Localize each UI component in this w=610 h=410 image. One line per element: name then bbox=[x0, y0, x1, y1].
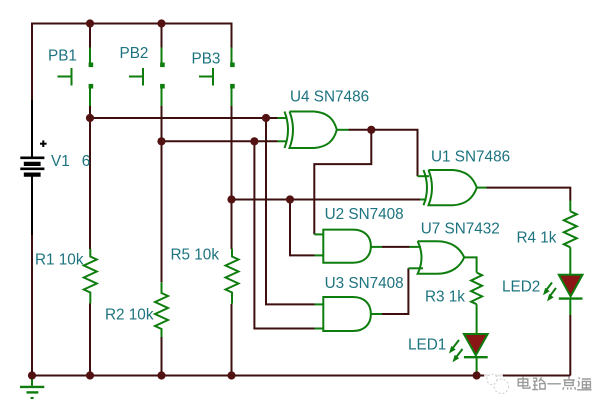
node A junction bbox=[86, 114, 94, 122]
svg-text:R3 1k: R3 1k bbox=[425, 289, 465, 306]
wire left branch battery top lead bbox=[31, 100, 33, 157]
wire node A branch to U3 input 1 bbox=[266, 118, 315, 304]
XOR gate U4 SN7486 bbox=[285, 112, 337, 149]
watermark text 电路一点通 (drawn as strokes) bbox=[520, 378, 593, 391]
wire U7 pin 2 stub bbox=[408, 267, 423, 269]
wire R3 to LED1 bbox=[476, 304, 478, 334]
wire left branch battery bottom lead bbox=[31, 177, 33, 236]
node ground battery junction bbox=[28, 371, 36, 379]
svg-text:R4 1k: R4 1k bbox=[517, 230, 557, 247]
wire U7 pin 1 stub bbox=[410, 246, 422, 248]
node ground R5 junction bbox=[227, 371, 235, 379]
wire left branch bottom bbox=[31, 235, 33, 376]
resistor R3 bbox=[471, 273, 482, 305]
svg-text:PB3: PB3 bbox=[192, 50, 221, 67]
wire U4 output to U1 input 1 bbox=[349, 130, 418, 176]
wire R1 to ground rail bbox=[89, 304, 91, 376]
OR gate U7 SN7432 bbox=[418, 241, 465, 274]
svg-text:U1 SN7486: U1 SN7486 bbox=[431, 149, 510, 166]
node ground R1 junction bbox=[86, 371, 94, 379]
svg-text:LED1: LED1 bbox=[408, 337, 446, 354]
AND gate U3 SN7408 bbox=[323, 297, 371, 331]
wire U1 output to R4 bbox=[487, 188, 571, 201]
wire R5 to ground rail bbox=[231, 304, 233, 376]
watermark logo bbox=[484, 371, 508, 393]
wire bottom ground rail bbox=[31, 375, 570, 377]
pushbutton PB1 bbox=[58, 48, 94, 107]
wire top rail V+ bbox=[32, 23, 232, 25]
pushbutton PB2 bbox=[129, 48, 165, 107]
wire U4 output stub bbox=[337, 129, 349, 131]
svg-text:PB1: PB1 bbox=[48, 48, 77, 65]
svg-text:6: 6 bbox=[82, 153, 91, 170]
svg-text:V1: V1 bbox=[51, 153, 70, 170]
svg-text:PB2: PB2 bbox=[120, 45, 149, 62]
wire U3 pin 2 stub bbox=[315, 328, 325, 330]
wire U1 pin 1 stub bbox=[418, 175, 430, 177]
wire LED2 to corner bbox=[569, 299, 571, 315]
node B branch junction bbox=[250, 137, 258, 145]
wire U2 output stub bbox=[371, 246, 382, 248]
wire node C to U1 input 2 bbox=[232, 199, 421, 201]
wire U4 output branch to U2 input 1 bbox=[314, 130, 371, 235]
node ground R2 junction bbox=[157, 371, 165, 379]
svg-text:R5 10k: R5 10k bbox=[171, 246, 220, 263]
node ground LED1 junction bbox=[473, 371, 481, 379]
node A branch junction bbox=[262, 114, 270, 122]
wire U4 pin 2 stub bbox=[278, 140, 288, 142]
diode LED1 bbox=[449, 334, 488, 362]
wire U3 pin 1 stub bbox=[315, 303, 325, 305]
wire PB2 top stub bbox=[161, 23, 163, 49]
node junction top rail PB2 bbox=[157, 19, 165, 27]
resistor R4 bbox=[564, 211, 577, 247]
wire U3 output stub bbox=[371, 313, 382, 315]
wire PB1 to node A bbox=[89, 105, 91, 249]
wire left branch top bbox=[31, 23, 33, 101]
node U4 output junction bbox=[367, 126, 375, 134]
wire U2 output to U7 input 1 bbox=[382, 246, 410, 248]
ground bbox=[20, 376, 44, 399]
node C junction bbox=[227, 195, 235, 203]
wire PB3 to node C bbox=[231, 105, 233, 249]
svg-text:R1 10k: R1 10k bbox=[35, 251, 84, 268]
wire node A to U4 input 1 bbox=[90, 117, 278, 119]
svg-text:R2 10k: R2 10k bbox=[105, 307, 154, 324]
wire U4 pin 1 stub bbox=[278, 117, 288, 119]
wire R4 top lead bbox=[569, 201, 571, 212]
wire PB2 to node B bbox=[161, 105, 163, 282]
wire LED2 branch to ground rail bbox=[569, 315, 571, 376]
wire U7 output to R3 bbox=[464, 257, 476, 272]
AND gate U2 SN7408 bbox=[323, 230, 371, 263]
wire node B branch to U3 input 2 bbox=[254, 141, 314, 328]
battery V1 bbox=[20, 140, 46, 174]
wire U1 pin 2 stub bbox=[420, 199, 427, 201]
XOR gate U1 SN7486 bbox=[424, 170, 477, 205]
wire PB1 top stub bbox=[89, 23, 91, 49]
svg-text:LED2: LED2 bbox=[502, 279, 540, 296]
svg-text:U7 SN7432: U7 SN7432 bbox=[421, 221, 500, 238]
wire U2 pin 2 stub bbox=[315, 254, 325, 256]
wire R4 to LED2 bbox=[569, 247, 571, 275]
wire LED1 to ground rail bbox=[476, 357, 478, 375]
wire U2 pin 1 stub bbox=[314, 233, 324, 235]
node junction top rail PB1 bbox=[86, 19, 94, 27]
resistor R5 bbox=[226, 249, 239, 304]
svg-text:U4 SN7486: U4 SN7486 bbox=[290, 89, 369, 106]
wire U3 output to U7 input 2 bbox=[382, 268, 408, 314]
wire R2 to ground rail bbox=[161, 337, 163, 376]
resistor R1 bbox=[84, 249, 97, 304]
wire U1 output stub bbox=[477, 187, 487, 189]
svg-text:U3 SN7408: U3 SN7408 bbox=[325, 275, 404, 292]
node B junction bbox=[157, 137, 165, 145]
wire node C branch to U2 input 2 bbox=[290, 200, 315, 256]
resistor R2 bbox=[155, 282, 168, 337]
pushbutton PB3 bbox=[199, 48, 235, 107]
wire PB3 top stub bbox=[231, 23, 233, 49]
svg-text:U2 SN7408: U2 SN7408 bbox=[325, 206, 404, 223]
wire node B to U4 input 2 bbox=[162, 140, 278, 142]
diode LED2 bbox=[543, 275, 583, 302]
node C branch junction bbox=[286, 195, 294, 203]
